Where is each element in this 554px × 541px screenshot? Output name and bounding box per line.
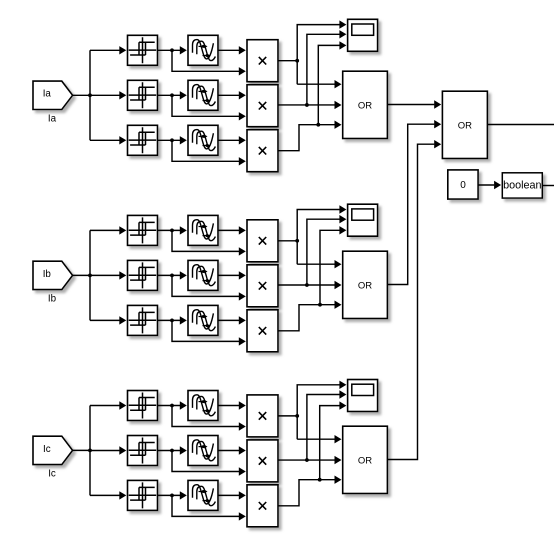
svg-text:Ic: Ic <box>43 444 51 455</box>
svg-text:OR: OR <box>458 120 472 131</box>
wire branch C1 to scope <box>297 381 346 440</box>
junction product C1 output <box>295 414 299 418</box>
wire relay C3 bypass to product <box>172 495 246 520</box>
OR gate A <box>343 71 388 138</box>
wire branch A1 to OR <box>297 80 341 88</box>
wire relay B1 bypass to product <box>172 230 246 255</box>
wire relay B3 to delay <box>158 316 187 324</box>
wire product C2 output to OR <box>278 456 342 464</box>
wire OR C output to final OR <box>387 140 441 460</box>
wire delay C3 to product <box>218 491 246 499</box>
svg-text:Ic: Ic <box>48 468 56 479</box>
wire branch A2 to scope <box>307 30 347 105</box>
svg-text:OR: OR <box>358 455 372 466</box>
wire Ia port to trunk <box>73 94 90 96</box>
junction branch A3 <box>316 123 320 127</box>
wire branch C1 to OR <box>297 435 341 443</box>
junction Ib trunk <box>88 274 92 278</box>
wire delay B2 to product <box>218 271 246 279</box>
wire product A2 output to OR <box>278 101 342 109</box>
junction relay A2 output <box>170 93 174 97</box>
OR gate final <box>442 91 487 158</box>
product block A3 <box>247 130 278 172</box>
wire relay B1 to delay <box>158 226 187 234</box>
scope C <box>348 380 378 412</box>
wire branch C2 to scope <box>307 390 347 460</box>
relay block C2 <box>128 436 158 466</box>
wire trunk to relay B2 <box>90 271 126 279</box>
wire relay A3 bypass to product <box>172 140 246 165</box>
relay block C3 <box>128 480 158 510</box>
wire relay B3 bypass to product <box>172 320 246 345</box>
junction relay C1 output <box>170 404 174 408</box>
label Ia <box>48 113 57 124</box>
svg-text:Ia: Ia <box>48 113 57 124</box>
svg-text:boolean: boolean <box>503 180 541 192</box>
junction relay C2 output <box>170 449 174 453</box>
data type conversion block boolean <box>502 173 542 198</box>
junction product A2 output <box>305 103 309 107</box>
junction product B1 output <box>295 239 299 243</box>
wire trunk to relay B3 <box>90 316 126 324</box>
svg-text:Ia: Ia <box>43 89 52 100</box>
svg-text:OR: OR <box>358 100 372 111</box>
wire product C1 output <box>278 415 297 417</box>
wire trunk to relay A3 <box>90 136 126 144</box>
wire relay C1 to delay <box>158 401 187 409</box>
junction Ic trunk <box>88 449 92 453</box>
wire trunk to relay A2 <box>90 91 126 99</box>
wire delay A1 to product <box>218 46 246 54</box>
junction relay B2 output <box>170 274 174 278</box>
product block A2 <box>247 85 278 127</box>
product block B1 <box>247 220 278 262</box>
wire Ia trunk vertical <box>89 50 91 140</box>
svg-text:OR: OR <box>358 280 372 291</box>
wire delay B1 to product <box>218 226 246 234</box>
wire delay B3 to product <box>218 316 246 324</box>
wire Ib trunk vertical <box>89 230 91 320</box>
relay block B1 <box>128 215 158 245</box>
wire Ib port to trunk <box>73 274 90 276</box>
junction product B2 output <box>305 283 309 287</box>
wire product B3 output to OR <box>278 301 342 331</box>
wire delay A3 to product <box>218 136 246 144</box>
junction product A1 output <box>295 59 299 63</box>
wire branch A3 to scope <box>318 41 346 125</box>
junction branch B3 <box>318 303 322 307</box>
wire product B2 output to OR <box>278 281 342 289</box>
wire relay C2 bypass to product <box>172 451 246 476</box>
wire delay C1 to product <box>218 401 246 409</box>
svg-text:0: 0 <box>460 180 466 191</box>
wire relay A3 to delay <box>158 136 187 144</box>
wire relay A1 to delay <box>158 46 187 54</box>
wire branch A1 to scope <box>297 20 346 84</box>
transport delay block B3 <box>188 305 218 335</box>
wire product A3 output to OR <box>278 121 342 151</box>
wire branch B1 to scope <box>297 205 346 264</box>
transport delay block B1 <box>188 215 218 245</box>
wire relay C1 bypass to product <box>172 406 246 431</box>
wire relay A2 bypass to product <box>172 95 246 120</box>
scope A <box>348 19 378 51</box>
relay block C1 <box>128 391 158 421</box>
product block C2 <box>247 440 278 482</box>
transport delay block C1 <box>188 391 218 421</box>
constant block 0 <box>448 170 478 199</box>
junction relay B3 output <box>170 319 174 323</box>
wire final OR output <box>487 124 554 126</box>
transport delay block A2 <box>188 80 218 110</box>
product block B2 <box>247 265 278 307</box>
junction relay B1 output <box>170 229 174 233</box>
wire relay C3 to delay <box>158 491 187 499</box>
scope B <box>348 204 378 236</box>
junction relay A1 output <box>170 48 174 52</box>
label Ic <box>48 468 56 479</box>
wire relay B2 to delay <box>158 271 187 279</box>
wire branch C3 to scope <box>320 401 347 479</box>
product block B3 <box>247 310 278 352</box>
OR gate B <box>343 251 388 318</box>
input port Ib <box>33 261 73 289</box>
wire branch B3 to scope <box>320 226 346 305</box>
wire boolean output <box>542 185 554 187</box>
wire relay A1 bypass to product <box>172 50 246 75</box>
wire relay C2 to delay <box>158 446 187 454</box>
wire trunk to relay C3 <box>90 491 126 499</box>
wire product B1 output <box>278 240 297 242</box>
wire branch B1 to OR <box>297 260 341 268</box>
junction relay A3 output <box>170 138 174 142</box>
wire relay B2 bypass to product <box>172 275 246 300</box>
wire delay A2 to product <box>218 91 246 99</box>
wire trunk to relay B1 <box>90 226 126 234</box>
wire Ic trunk vertical <box>89 406 91 496</box>
product block C1 <box>247 395 278 437</box>
relay block A1 <box>128 35 158 65</box>
junction branch C3 <box>318 478 322 482</box>
product block A1 <box>247 40 278 82</box>
transport delay block C3 <box>188 480 218 510</box>
wire relay A2 to delay <box>158 91 187 99</box>
svg-text:Ib: Ib <box>43 269 52 280</box>
transport delay block A3 <box>188 125 218 155</box>
wire branch B2 to scope <box>307 215 347 285</box>
relay block B3 <box>128 305 158 335</box>
relay block A3 <box>128 125 158 155</box>
wire delay C2 to product <box>218 446 246 454</box>
junction product C2 output <box>305 458 309 462</box>
relay block B2 <box>128 260 158 290</box>
wire OR A output to final OR <box>387 100 441 108</box>
wire trunk to relay C1 <box>90 401 126 409</box>
wire constant to boolean <box>478 181 501 189</box>
product block C3 <box>247 485 278 527</box>
wire trunk to relay C2 <box>90 446 126 454</box>
wire Ic port to trunk <box>73 449 90 451</box>
transport delay block B2 <box>188 260 218 290</box>
svg-text:Ib: Ib <box>48 293 57 304</box>
label Ib <box>48 293 57 304</box>
wire trunk to relay A1 <box>90 46 126 54</box>
OR gate C <box>343 426 388 493</box>
wire product C3 output to OR <box>278 476 342 506</box>
input port Ia <box>33 81 73 109</box>
transport delay block A1 <box>188 35 218 65</box>
junction relay C3 output <box>170 494 174 498</box>
wire product A1 output <box>278 60 297 62</box>
wire OR B output to final OR <box>387 120 441 285</box>
transport delay block C2 <box>188 436 218 466</box>
relay block A2 <box>128 80 158 110</box>
input port Ic <box>33 436 73 464</box>
junction Ia trunk <box>88 93 92 97</box>
